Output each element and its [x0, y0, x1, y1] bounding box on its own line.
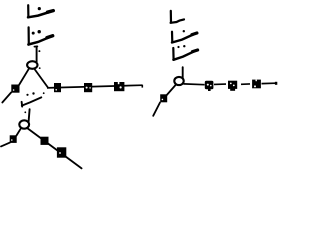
square bead S2: [84, 83, 92, 92]
square terminal SRL: [160, 94, 167, 102]
end tick of left chain: [141, 85, 143, 88]
glyph label C3 (L with two dots): [173, 45, 197, 60]
speck dot right of stem: [38, 50, 40, 52]
wire stem from label B1 down to node circle 2: [29, 109, 30, 121]
wire right leg of node 1: [34, 69, 48, 88]
wire left leg tail of node 2: [1, 143, 10, 147]
square terminal S2L: [10, 135, 17, 143]
wire left leg tail: [2, 92, 11, 102]
glyph label C1 (plain L, top of right structure): [171, 11, 184, 23]
wire left leg of node 1: [19, 68, 29, 85]
square bead SB on right leg: [57, 147, 66, 157]
speck below chain: [43, 92, 45, 94]
square bead S1: [54, 83, 61, 92]
serif at stem top: [34, 45, 37, 47]
node circle 1: [27, 61, 37, 69]
speck dot right of node circle 1: [39, 67, 41, 69]
wire stem from label C3 down to node circle R: [182, 67, 184, 78]
square bead S3: [114, 82, 124, 91]
wire down-left leg of node R: [166, 85, 176, 96]
wire right leg of node 2: [28, 128, 82, 168]
glyph label A1 (L-shape with dot, top-left): [28, 5, 53, 17]
glyph label B1 (tilted stroke with two dots, above node circle 2): [22, 92, 42, 106]
wire down-left leg tail of node R: [153, 103, 160, 116]
square bead R2: [228, 81, 237, 91]
wire horizontal chain (left structure): [47, 85, 143, 88]
speck dot left of stem 2: [24, 111, 26, 113]
end tick of right chain: [275, 82, 277, 85]
square terminal S1L: [11, 85, 19, 93]
wire right chain solid segment from node R: [184, 83, 205, 86]
node circle R: [174, 77, 183, 85]
wire dash 1: [214, 83, 226, 85]
square bead SA on right leg: [41, 137, 49, 145]
square bead R1: [205, 81, 214, 91]
wire stem from label A2 down to node circle 1: [36, 46, 38, 62]
node circle 2: [19, 120, 29, 128]
wire dash 2: [241, 83, 250, 85]
wire right chain end segment: [262, 82, 276, 84]
square bead R3: [252, 80, 261, 89]
glyph label A2 (L-shape with two dots): [28, 27, 52, 44]
wire left leg of node 2: [16, 128, 21, 135]
glyph label C2 (L with one dot): [172, 30, 197, 43]
